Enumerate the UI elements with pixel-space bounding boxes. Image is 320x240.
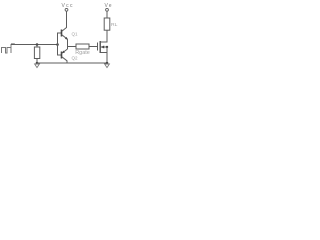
transistor Q1 emitter with arrow [62,35,68,40]
ground symbol left [35,64,40,68]
Vcc terminal [65,8,68,11]
svg-text:Ve: Ve [105,3,112,9]
svg-text:RL: RL [111,22,118,28]
wire Q1 emitter to node [67,39,69,46]
ground symbol right [105,64,110,68]
MOSFET M1 channel bar [99,41,101,53]
node junction ground right [106,62,109,65]
svg-text:Q2: Q2 [72,56,79,61]
pulse source output pin tick [11,43,15,45]
transistor Q1 collector [62,11,67,32]
wire base bus vertical [58,33,62,55]
svg-text:Q1: Q1 [72,32,79,37]
wire R1 bottom [36,59,38,64]
wire node to Rgate [68,46,77,48]
wire ground rail [37,62,107,64]
MOSFET M1 body arrow [100,46,107,48]
node junction base bus [56,43,59,46]
wire Rgate to gate [89,46,98,48]
svg-text:Rgate: Rgate [75,50,90,56]
wire source to rail [106,47,108,63]
resistor Rgate body [76,44,89,49]
resistor RL body [104,18,110,30]
node junction at R1 top [36,43,39,46]
node junction ground left [36,62,39,65]
wire R1 top [36,45,38,48]
wire Ve to RL [106,11,108,18]
wire Q2 emitter to node [67,47,69,50]
transistor Q1 base bar [61,30,63,37]
resistor R1 body [34,47,39,59]
Ve terminal [106,8,109,11]
transistor Q2 base bar [61,52,63,59]
pulse source final edge [10,44,12,53]
MOSFET M1 drain stub [100,30,107,42]
pulse source V1 [2,48,12,54]
wire input net [11,44,58,46]
transistor Q2 emitter with arrow to node [62,49,68,54]
MOSFET M1 gate bar [97,43,99,51]
MOSFET M1 source stub [100,52,107,54]
transistor Q2 collector [62,57,68,64]
svg-text:Vcc: Vcc [62,3,74,9]
node junction body-source [106,46,108,48]
